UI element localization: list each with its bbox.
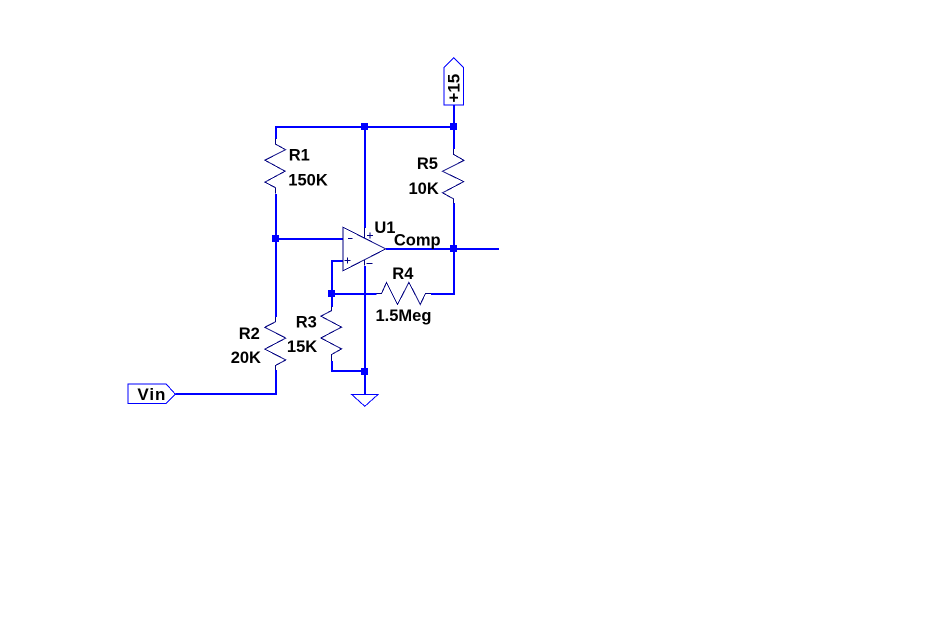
svg-text:R2: R2 [239, 325, 260, 343]
svg-text:R1: R1 [289, 147, 310, 165]
svg-text:150K: 150K [288, 172, 328, 190]
svg-text:R4: R4 [392, 265, 414, 283]
svg-text:Comp: Comp [394, 231, 441, 249]
svg-text:R3: R3 [296, 313, 317, 331]
svg-text:10K: 10K [409, 180, 439, 198]
svg-text:R5: R5 [417, 155, 438, 173]
svg-text:1.5Meg: 1.5Meg [376, 307, 432, 325]
svg-text:15K: 15K [287, 338, 317, 356]
svg-text:Vin: Vin [137, 385, 166, 404]
svg-text:+15: +15 [444, 74, 463, 103]
svg-text:20K: 20K [231, 349, 261, 367]
svg-text:U1: U1 [374, 219, 395, 237]
